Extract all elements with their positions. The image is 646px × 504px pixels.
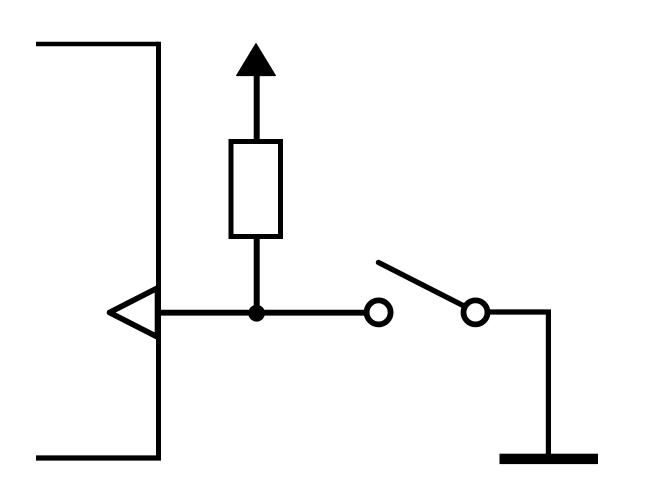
wire: top-left horizontal stub into left bus (36, 42, 159, 47)
op-amp buffer triangle U1 (input gate, pointing left) (110, 288, 158, 337)
wire: vertical stem from supply arrow down to resistor top (254, 73, 260, 141)
wire: bottom-left horizontal stub into left bus (36, 455, 161, 460)
junction dot at node (248, 305, 265, 322)
switch S1 lever arm (open) (379, 263, 464, 306)
wire: left vertical bus line (156, 42, 161, 461)
switch S1 left contact circle (367, 300, 391, 324)
wire: vertical stem from resistor bottom to node junction (254, 237, 260, 313)
resistor R1 (pull-up) (231, 142, 281, 237)
ground symbol (500, 454, 599, 464)
power supply arrow (VCC) (237, 44, 276, 76)
wire: horizontal from switch right contact to ground drop (489, 309, 551, 314)
switch S1 right contact circle (464, 300, 488, 324)
wire: right vertical drop to ground (546, 312, 551, 454)
wire: horizontal node wire from buffer to switch (159, 310, 367, 316)
